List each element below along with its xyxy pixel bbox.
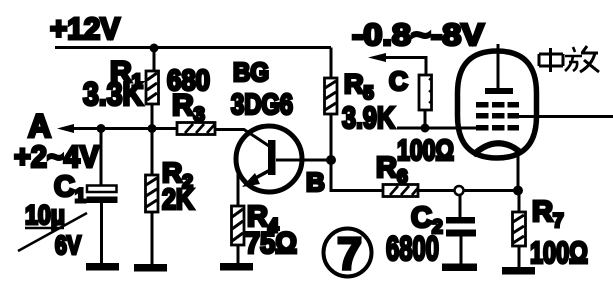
node junction A-line / R1 R2	[148, 124, 157, 133]
node open circle C2 tap	[455, 186, 464, 195]
wire R2 to ground	[151, 212, 154, 265]
wire R7 to ground	[518, 246, 521, 268]
svg-text:C: C	[389, 66, 408, 96]
tube plate	[485, 88, 513, 94]
svg-text:10μ: 10μ	[25, 200, 65, 230]
wire cathode lead down	[517, 150, 520, 190]
wire R4 to ground	[237, 245, 240, 264]
node cathode junction	[513, 186, 523, 196]
label 中放	[539, 46, 599, 72]
node B junction	[326, 155, 336, 165]
svg-text:BG: BG	[233, 57, 269, 87]
resistor R4	[232, 206, 245, 245]
wire bias arrow to C resistor	[384, 58, 426, 76]
node junction on rail at R1	[150, 44, 159, 53]
wire R3 to transistor base	[215, 130, 269, 147]
wire rail to R1	[153, 48, 156, 72]
svg-text:3.3K: 3.3K	[83, 76, 143, 112]
wire node B down and right to R6	[331, 160, 383, 191]
svg-text:-0.8~-8V: -0.8~-8V	[352, 17, 484, 52]
node grid junction	[421, 124, 430, 133]
resistor R6	[383, 185, 418, 197]
wire R5 to node B	[330, 114, 333, 160]
ground C2	[442, 264, 477, 272]
wire R6 to cathode node	[418, 189, 514, 192]
svg-text:2K: 2K	[162, 184, 194, 216]
capacitor C1	[87, 186, 118, 204]
wire A-line to C1	[100, 129, 103, 187]
tube plate lead	[497, 44, 500, 89]
svg-text:+2~4V: +2~4V	[14, 139, 99, 174]
resistor R5	[325, 78, 338, 114]
svg-text:6V: 6V	[55, 230, 82, 260]
wire emitter to R4	[237, 174, 240, 206]
tube grid row 2	[476, 113, 519, 119]
svg-text:100Ω: 100Ω	[530, 235, 588, 270]
wire C2 to ground	[460, 236, 463, 264]
svg-text:3DG6: 3DG6	[231, 89, 293, 121]
ground C1	[86, 263, 119, 271]
tube grid row 1	[476, 102, 519, 108]
wire A line with arrow	[74, 127, 177, 130]
wire rail corner down to R5	[330, 48, 333, 79]
wire +12V rail	[55, 46, 331, 49]
svg-text:+12V: +12V	[50, 11, 120, 46]
transistor BG 3DG6	[236, 126, 302, 192]
tube grid row 3	[476, 125, 519, 131]
resistor R3	[177, 123, 215, 135]
svg-text:7: 7	[337, 228, 362, 279]
figure number circled 7	[324, 228, 372, 279]
wire C1 to ground	[100, 203, 103, 264]
vacuum tube envelope	[458, 51, 537, 158]
wire screen grid out right	[517, 115, 613, 118]
wire grid line	[397, 127, 478, 130]
fraction slash	[18, 213, 87, 251]
ground R4	[220, 263, 253, 271]
resistor R1	[146, 71, 159, 104]
ground R7	[502, 267, 535, 275]
svg-text:6800: 6800	[386, 230, 439, 268]
wire collector to node B	[300, 159, 331, 162]
wire tap to C2	[459, 194, 462, 218]
tube cathode	[473, 143, 520, 155]
resistor R7	[513, 212, 526, 246]
svg-text:100Ω: 100Ω	[397, 135, 454, 167]
ground R2	[134, 264, 167, 272]
wire cathode node to R7	[518, 190, 521, 212]
wire grid resistor down to grid line	[424, 110, 427, 128]
svg-text:75Ω: 75Ω	[245, 227, 297, 260]
svg-text:B: B	[306, 167, 325, 197]
node junction A-line / C1	[97, 124, 106, 133]
resistor C 100ohm (grid)	[419, 75, 432, 110]
capacitor C2	[446, 217, 476, 237]
wire R1 to A-line to R2	[151, 104, 154, 175]
resistor R2	[146, 175, 159, 212]
svg-text:3.9K: 3.9K	[342, 100, 395, 135]
